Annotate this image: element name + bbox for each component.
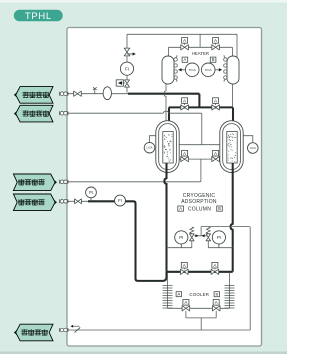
wire PI line right: [208, 247, 232, 249]
wire purge gas line: [60, 329, 251, 331]
label box A: [178, 206, 184, 211]
valve HV2 with A box: [212, 38, 220, 50]
svg-text:A: A: [177, 292, 180, 297]
controller arrow box: [116, 80, 125, 86]
wire left vessel bottom drop with hop: [164, 84, 166, 121]
svg-text:LICA: LICA: [147, 146, 153, 150]
flow indicator FI1: [120, 62, 133, 75]
wire cooler bottom line: [168, 307, 230, 309]
wire column B downpipe bold with hop: [231, 163, 233, 272]
svg-text:HEATER: HEATER: [192, 51, 209, 56]
wire PI line left: [167, 247, 192, 249]
main panel: [67, 28, 262, 347]
wire right vessel bottom drop: [231, 84, 233, 122]
check valve on purge line with arrow: [70, 325, 80, 333]
fitting union F1: [60, 92, 69, 96]
adsorption column A outer shell: [156, 121, 179, 173]
wire header center drop: [199, 34, 201, 47]
svg-text:PI: PI: [217, 235, 221, 240]
svg-text:ADSORPTION: ADSORPTION: [181, 199, 217, 205]
wire top header line: [127, 33, 237, 35]
banner purge gas 沖吹氣體: [14, 323, 53, 341]
wire center drop to waste line: [200, 159, 201, 182]
wire right column top stub bold: [232, 107, 234, 130]
relief valve RV1 with spring: [190, 234, 195, 241]
fitting union F3: [60, 180, 69, 184]
svg-text:TPHL: TPHL: [25, 11, 52, 22]
pressure indicator PI2: [180, 244, 182, 248]
label box A cooler: [176, 292, 181, 297]
wire header right drop: [236, 34, 238, 57]
banner raw material gas 原料氣體: [13, 193, 57, 211]
wire evaporated nitrogen line: [60, 112, 201, 114]
inline filter ellipse: [103, 87, 111, 100]
cooler coil left: [163, 286, 173, 309]
valve V3 on feed line: [74, 91, 82, 96]
valve vent V1 with right arrow: [124, 48, 130, 56]
svg-text:COOLER: COOLER: [189, 292, 209, 297]
svg-text:A: A: [184, 57, 187, 62]
wire cooler right pipe: [229, 273, 231, 308]
flow indicator FI2 inline: [115, 195, 126, 206]
svg-text:FI: FI: [125, 66, 129, 71]
wire RV2 riser: [207, 241, 209, 248]
wire FI branch upper: [126, 34, 128, 48]
banner purified gas 純化氣體: [14, 86, 53, 104]
wire inter-column upper line: [179, 144, 220, 146]
wire vent collection line: [201, 227, 250, 330]
heater vessel left: [162, 56, 174, 84]
svg-text:PI: PI: [179, 235, 183, 240]
heater coil left vessel: [174, 55, 177, 82]
wire raw gas line bold: [88, 200, 115, 202]
wire valve to feed line: [126, 87, 128, 93]
wire inter-column valve line: [179, 158, 220, 160]
adsorption column A bed: [163, 132, 173, 164]
svg-text:B: B: [215, 292, 218, 297]
wire relief cross line: [194, 235, 208, 237]
valve CLV2 with A box: [212, 300, 220, 311]
arrow TICA-B to right vessel: [215, 68, 222, 71]
wire feed line bold: [128, 93, 199, 95]
wire cooler outlet stubs: [186, 311, 216, 330]
banner waste nitrogen 廢棄氮氣: [13, 173, 57, 191]
cooler coil right: [225, 286, 235, 309]
wire heater valve line: [169, 46, 233, 48]
wire waste nitrogen line: [60, 181, 200, 183]
valve BV1 with A box: [181, 262, 189, 274]
fitting union F5: [60, 328, 69, 332]
adsorption column B inner shell: [223, 124, 241, 170]
level controller LICA left: [150, 136, 156, 143]
svg-text:TICA: TICA: [205, 68, 213, 72]
wire right vessel top stub: [231, 47, 233, 56]
svg-text:PI: PI: [89, 190, 93, 195]
svg-text:A: A: [179, 206, 182, 211]
wire left vessel top stub: [168, 47, 170, 56]
wire FI down: [126, 75, 128, 79]
valve CV1 with A box: [181, 150, 189, 161]
adsorption column B bed: [227, 132, 237, 164]
svg-text:LICA: LICA: [250, 146, 256, 150]
valve BV2 with A box: [211, 262, 219, 274]
wire evap line drop to upper line: [201, 113, 202, 145]
wire raw gas bold elbow down and to cooler: [126, 201, 167, 281]
svg-text:COLUMN: COLUMN: [188, 206, 211, 212]
temperature controller TICA B: [210, 57, 216, 62]
wire left column top stub bold: [168, 107, 170, 130]
heater vessel right: [227, 56, 239, 84]
banner evaporated nitrogen 蒸發氮氣: [14, 105, 53, 123]
pressure indicator PI3: [218, 244, 220, 248]
wire bottom manifold bold: [167, 271, 233, 273]
arrow RV1 vent right: [195, 234, 198, 237]
pressure indicator PI1: [90, 198, 92, 202]
valve MV1 with A box: [181, 98, 189, 110]
adsorption column A inner shell: [159, 124, 177, 170]
heater coil right vessel: [224, 55, 227, 82]
wire valve to FI: [126, 56, 128, 62]
arrow RV2 vent left: [201, 234, 204, 237]
fitting union F2: [60, 111, 69, 115]
wire column A downpipe bold with hop: [164, 163, 166, 272]
svg-text:TICA: TICA: [189, 68, 197, 72]
hand valve V4 small riser: [93, 87, 97, 93]
arrow TICA-A to left vessel: [178, 68, 185, 71]
valve V2 below FI: [125, 80, 130, 87]
valve CV2 with A box: [212, 150, 220, 161]
valve MV2 with A box: [212, 98, 220, 110]
wire feed drop bold: [198, 94, 200, 108]
label box B cooler: [214, 292, 219, 297]
svg-text:B: B: [212, 57, 215, 62]
fitting union F4: [60, 199, 69, 203]
valve HV1 with A box: [181, 38, 189, 50]
svg-text:B: B: [218, 206, 221, 211]
wire cooler left pipe: [167, 273, 169, 308]
label box B: [217, 206, 223, 211]
label CRYOGENIC ADSORPTION COLUMN: [181, 193, 217, 212]
TPHL title pill: [14, 10, 63, 22]
level controller LICA right: [243, 136, 253, 143]
adsorption column B outer shell: [220, 121, 243, 173]
wire purified gas line thin: [60, 93, 129, 95]
wire raw gas line thin: [60, 200, 89, 202]
wire column manifold bold: [169, 106, 233, 108]
svg-text:FI: FI: [118, 198, 122, 203]
valve CLV1 with A box: [182, 300, 190, 311]
relief valve RV2 with spring: [206, 234, 211, 241]
valve V5 on raw gas line: [75, 199, 82, 204]
temperature controller TICA A: [182, 57, 188, 62]
wire vent center drop: [200, 227, 202, 236]
wire RV1 riser: [191, 241, 193, 248]
